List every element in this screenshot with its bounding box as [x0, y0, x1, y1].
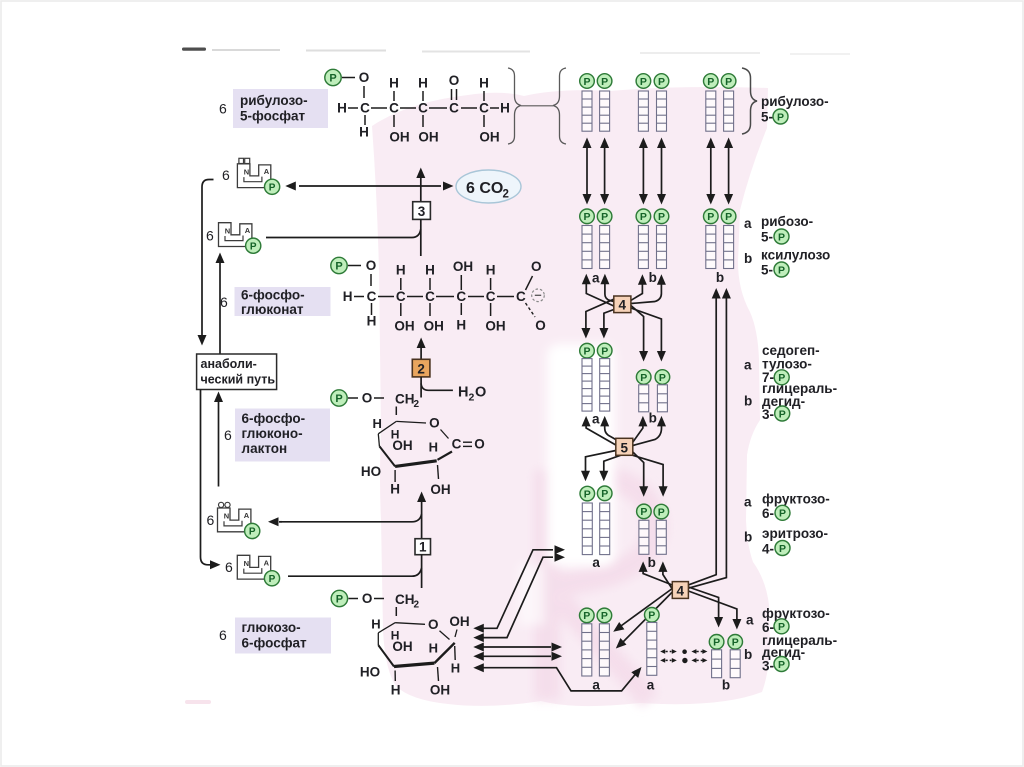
svg-text:H: H: [479, 76, 489, 91]
svg-text:b: b: [649, 411, 657, 426]
svg-text:HO: HO: [361, 464, 381, 479]
svg-text:OH: OH: [418, 130, 438, 145]
svg-text:5-фосфат: 5-фосфат: [240, 109, 306, 124]
svg-text:ческий путь: ческий путь: [201, 373, 276, 387]
svg-text:6: 6: [219, 627, 227, 643]
svg-text:b: b: [744, 530, 752, 545]
left vertical 1 lower (to NADP icon 4): [201, 390, 221, 570]
svg-text:a: a: [592, 678, 600, 693]
svg-text:CH: CH: [395, 392, 415, 407]
svg-text:эритрозо-: эритрозо-: [762, 526, 828, 541]
svg-text:P: P: [725, 211, 732, 223]
svg-text:глюкозо-: глюкозо-: [242, 620, 301, 635]
label glyceraldehyde-3-P (row5): [762, 645, 805, 674]
svg-text:рибулозо-: рибулозо-: [240, 93, 308, 108]
arrow to NADPH 1 and to CO2 (horizontal through junction): [285, 182, 453, 191]
NADP line to enzyme 3: [266, 229, 421, 238]
wire fructose-a to glucose (line 2): [473, 553, 565, 642]
svg-text:фруктозо-: фруктозо-: [762, 492, 830, 507]
svg-text:N: N: [224, 512, 229, 521]
svg-text:a: a: [746, 613, 754, 628]
svg-text:P: P: [329, 73, 336, 85]
svg-text:4-: 4-: [762, 542, 774, 557]
svg-text:O: O: [449, 73, 460, 88]
svg-text:OH: OH: [430, 683, 450, 698]
svg-text:N: N: [225, 226, 230, 235]
glyceraldehyde-3-P columns row 3b: [636, 370, 669, 412]
svg-text:H: H: [391, 683, 401, 698]
svg-text:P: P: [269, 574, 276, 585]
svg-text:P: P: [335, 261, 342, 273]
CO2 ellipse: [456, 170, 521, 203]
svg-text:5-: 5-: [761, 230, 773, 245]
ribulose-5-P columns row 1: [580, 74, 736, 132]
svg-text:2: 2: [414, 399, 420, 410]
faint pink dash bottom-left: [185, 700, 211, 704]
glucose-6-phosphate structure: [331, 590, 469, 697]
label glyceraldehyde-3-P (row3): [762, 381, 837, 422]
svg-text:ксилулозо: ксилулозо: [761, 248, 830, 263]
svg-text:P: P: [778, 264, 785, 276]
svg-text:P: P: [640, 211, 647, 223]
wire fructose-a to glucose (line 1): [473, 545, 565, 633]
label 6-phosphogluconate: [235, 287, 331, 317]
svg-text:6: 6: [225, 559, 233, 575]
arrows row3 up from box 5: [582, 416, 666, 446]
svg-text:P: P: [732, 637, 739, 649]
svg-text:P: P: [583, 76, 590, 88]
label b erythrose: [744, 530, 752, 545]
svg-text:N: N: [244, 559, 249, 568]
svg-text:C: C: [456, 289, 466, 304]
label erythrose-4-P: [762, 526, 828, 557]
label b glyceraldehyde (row5): [744, 647, 752, 662]
svg-text:5-: 5-: [761, 110, 773, 125]
svg-text:рибозо-: рибозо-: [761, 214, 813, 229]
equilibrium dashed arrows with dots: [660, 649, 707, 663]
enzyme arrow up to phosphogluconate: [417, 338, 426, 360]
svg-text:P: P: [640, 372, 647, 384]
count 6 (ribulose): [219, 101, 227, 117]
svg-text:a: a: [592, 412, 600, 427]
svg-text:H: H: [337, 101, 347, 116]
NADPH icon 1: [237, 158, 279, 194]
label b (row2): [649, 270, 657, 285]
line below box 2: [420, 377, 422, 398]
svg-text:анаболи-: анаболи-: [201, 357, 257, 371]
single a column row 5: [645, 608, 660, 676]
label a (row5 single): [647, 678, 655, 693]
svg-text:P: P: [336, 594, 343, 606]
NADPH icon 3: [218, 502, 260, 538]
svg-text:A: A: [264, 559, 270, 568]
svg-text:2: 2: [469, 392, 475, 404]
count 6 (NADP icon 4): [225, 559, 233, 575]
label b (row3): [649, 411, 657, 426]
svg-text:O: O: [474, 437, 485, 452]
svg-text:C: C: [367, 289, 377, 304]
svg-text:6-фосфо-: 6-фосфо-: [242, 411, 306, 426]
svg-text:2: 2: [414, 600, 420, 611]
svg-text:1: 1: [419, 540, 427, 555]
svg-text:P: P: [707, 76, 714, 88]
fructose-6-P columns row 5: [580, 608, 612, 676]
svg-text:OH: OH: [479, 130, 499, 145]
svg-text:P: P: [658, 76, 665, 88]
svg-text:OH: OH: [449, 614, 469, 629]
svg-text:a: a: [744, 495, 752, 510]
label a fructose (row4): [744, 495, 752, 510]
svg-text:глюконат: глюконат: [241, 302, 304, 317]
count 6 (glucose): [219, 627, 227, 643]
svg-text:A: A: [264, 167, 270, 176]
label b (row2 pair3): [716, 270, 724, 285]
count 6 (NADPH top): [222, 167, 230, 183]
label ribose-5-P: [761, 214, 813, 245]
svg-text:6: 6: [207, 512, 215, 528]
label fructose-6-P (row5): [762, 606, 830, 635]
count 6 (phosphogluconate): [220, 294, 228, 310]
svg-text:P: P: [779, 508, 786, 520]
svg-text:H: H: [367, 314, 377, 329]
ribulose-5-phosphate structure: [325, 69, 510, 144]
svg-text:N: N: [244, 167, 249, 176]
svg-text:C: C: [516, 289, 526, 304]
svg-text:C: C: [418, 101, 428, 116]
svg-text:6: 6: [206, 227, 214, 243]
svg-text:OH: OH: [430, 482, 450, 497]
arrows box 4a down to row3: [581, 299, 666, 361]
label ribulose-5-phosphate: [233, 89, 328, 128]
svg-text:лактон: лактон: [242, 441, 288, 456]
svg-text:P: P: [640, 506, 647, 518]
H2O branch: [421, 384, 453, 391]
svg-text:6 CO: 6 CO: [466, 180, 503, 197]
svg-text:O: O: [366, 258, 377, 273]
label b (row5): [722, 678, 730, 693]
svg-text:a: a: [744, 216, 752, 231]
enzyme box 5: [616, 438, 633, 455]
enzyme box 3: [413, 202, 431, 220]
svg-text:O: O: [531, 259, 542, 274]
svg-text:4: 4: [677, 583, 685, 598]
svg-text:C: C: [389, 101, 399, 116]
brace right of ribulose structure: [508, 68, 566, 144]
H2O text: [458, 385, 486, 404]
svg-text:O: O: [428, 617, 439, 632]
arrows box 4b down-right to glyceraldehyde: [688, 587, 741, 630]
svg-text:OH: OH: [424, 319, 444, 334]
label sedoheptulose-7-P: [762, 343, 820, 385]
NADP icon 4: [237, 555, 279, 586]
line below box 3: [420, 219, 422, 256]
svg-text:H: H: [373, 416, 382, 431]
svg-text:P: P: [601, 345, 608, 357]
arrows box 5 down to row4: [581, 451, 668, 497]
svg-text:O: O: [535, 318, 546, 333]
svg-text:H: H: [451, 661, 460, 676]
left vertical 1 upper (down arrow to anabolic box): [198, 180, 214, 346]
svg-text:O: O: [429, 416, 440, 431]
label xylulose-5-P: [761, 248, 830, 278]
svg-text:OH: OH: [392, 639, 412, 654]
svg-text:H: H: [456, 318, 466, 333]
svg-text:P: P: [601, 211, 608, 223]
svg-text:H: H: [458, 385, 468, 401]
svg-text:P: P: [779, 408, 786, 420]
svg-text:P: P: [725, 76, 732, 88]
svg-text:5: 5: [621, 440, 629, 455]
left vertical 2 lower (up arrow to anabolic box): [214, 392, 223, 487]
svg-text:6-фосфат: 6-фосфат: [242, 636, 308, 651]
svg-text:H: H: [359, 125, 369, 140]
svg-text:P: P: [583, 211, 590, 223]
svg-text:рибулозо-: рибулозо-: [761, 94, 829, 109]
label a fructose (row5): [746, 613, 754, 628]
svg-text:P: P: [658, 506, 665, 518]
svg-text:HO: HO: [360, 665, 380, 680]
label fructose-6-P (row4): [762, 492, 830, 522]
svg-text:H: H: [389, 76, 399, 91]
svg-text:P: P: [601, 76, 608, 88]
glyceraldehyde-3-P columns row 5: [709, 635, 742, 678]
svg-text:b: b: [744, 251, 752, 266]
svg-text:6: 6: [220, 294, 228, 310]
svg-text:P: P: [707, 211, 714, 223]
svg-text:P: P: [335, 393, 342, 405]
svg-text:P: P: [601, 488, 608, 500]
svg-text:H: H: [486, 263, 496, 278]
svg-text:6: 6: [219, 101, 227, 117]
svg-text:C: C: [452, 437, 462, 452]
count 6 (NADPH icon 3): [207, 512, 215, 528]
svg-text:C: C: [486, 289, 496, 304]
svg-text:a: a: [744, 358, 752, 373]
svg-text:P: P: [583, 346, 590, 358]
svg-text:4: 4: [619, 298, 627, 313]
svg-text:3-: 3-: [762, 659, 774, 674]
NADP line from icon 4 to enzyme 1: [288, 568, 422, 576]
svg-text:H: H: [371, 617, 380, 632]
label glyceraldehyde (row5) line1: [762, 633, 837, 648]
label b (row4): [648, 555, 656, 570]
svg-text:O: O: [362, 391, 373, 406]
svg-text:O: O: [362, 591, 373, 606]
svg-text:C: C: [396, 289, 406, 304]
svg-text:OH: OH: [389, 130, 409, 145]
label a sedoheptulose: [744, 358, 752, 373]
svg-text:H: H: [425, 263, 435, 278]
label a (row2): [592, 271, 600, 286]
svg-text:C: C: [479, 101, 489, 116]
pink panel background: [372, 87, 770, 706]
svg-text:A: A: [244, 511, 250, 520]
svg-text:OH: OH: [485, 319, 505, 334]
svg-text:b: b: [722, 678, 730, 693]
enzyme box 2: [412, 359, 430, 377]
svg-text:b: b: [649, 270, 657, 285]
enzyme box 4b: [672, 582, 688, 599]
svg-text:b: b: [744, 647, 752, 662]
count 6 (lactone): [224, 427, 232, 443]
enzyme box 1: [415, 539, 431, 555]
svg-text:a: a: [647, 678, 655, 693]
label a ribose: [744, 216, 752, 231]
6-phosphogluconate structure: [331, 257, 546, 333]
label a (row3): [592, 412, 600, 427]
wire bottom V path to single a-column: [473, 663, 641, 691]
left vertical 2 upper (up arrow to NADP icon 2): [216, 253, 225, 355]
white notch over pink (left of fructose columns): [519, 344, 615, 625]
ribose/xylulose columns row 2: [580, 209, 736, 269]
svg-text:6-фосфо-: 6-фосфо-: [241, 288, 305, 303]
svg-text:A: A: [245, 226, 251, 235]
label b glyceraldehyde (row3): [744, 394, 752, 409]
svg-text:P: P: [250, 241, 257, 252]
NADPH line from enzyme 1: [279, 514, 422, 522]
svg-text:b: b: [744, 394, 752, 409]
svg-text:P: P: [249, 527, 256, 538]
svg-text:OH: OH: [394, 319, 414, 334]
label a (row5 pair): [592, 678, 600, 693]
svg-text:a: a: [592, 271, 600, 286]
svg-text:CH: CH: [395, 592, 415, 607]
svg-text:P: P: [583, 610, 590, 622]
svg-text:2: 2: [417, 361, 425, 376]
enzyme arrow up to ribulose: [416, 168, 425, 202]
svg-text:P: P: [601, 610, 608, 622]
enzyme box 4a: [614, 296, 631, 313]
svg-text:OH: OH: [453, 259, 473, 274]
label glucose-6-phosphate: [235, 618, 331, 654]
arrows row4b up from box 4b: [639, 561, 673, 589]
enzyme arrow up to lactone: [417, 492, 426, 539]
line below box 1: [421, 555, 423, 588]
svg-text:P: P: [778, 621, 785, 633]
anabolic pathway box: [197, 354, 277, 390]
wire fructose to glucose (line 4): [473, 652, 562, 661]
svg-text:5-: 5-: [761, 263, 773, 278]
sedoheptulose-7-P columns row 3a: [580, 343, 612, 411]
svg-text:2: 2: [503, 189, 509, 201]
arrowhead to NADPH 3: [268, 517, 282, 526]
svg-text:OH: OH: [392, 438, 412, 453]
svg-text:глюконо-: глюконо-: [242, 426, 303, 441]
top edge dashes: [182, 48, 850, 56]
svg-text:O: O: [475, 385, 486, 401]
svg-text:H: H: [396, 263, 406, 278]
svg-text:C: C: [360, 101, 370, 116]
svg-text:P: P: [658, 211, 665, 223]
NADP icon 2: [219, 223, 261, 254]
svg-text:C: C: [449, 101, 459, 116]
svg-text:a: a: [592, 555, 600, 570]
long verticals from box 4b up to pair3: [688, 288, 731, 588]
count 6 (NADP icon 2): [206, 227, 214, 243]
wire fructose to glucose (line 3): [473, 643, 562, 652]
fructose-6-P columns row 4a: [580, 486, 612, 555]
svg-text:6-: 6-: [762, 506, 774, 521]
svg-text:P: P: [777, 111, 784, 123]
label 6-phosphoglucono-lactone: [235, 409, 330, 462]
svg-text:P: P: [648, 610, 655, 622]
svg-text:P: P: [778, 659, 785, 671]
svg-text:H: H: [390, 482, 400, 497]
label b xylulose: [744, 251, 752, 266]
svg-text:C: C: [425, 289, 435, 304]
svg-text:H: H: [343, 289, 353, 304]
svg-text:H: H: [429, 440, 438, 455]
svg-text:P: P: [584, 488, 591, 500]
svg-text:O: O: [359, 70, 370, 85]
6-phosphoglucono-lactone structure: [331, 390, 485, 497]
svg-text:3-: 3-: [762, 407, 774, 422]
svg-text:P: P: [659, 372, 666, 384]
svg-text:P: P: [778, 231, 785, 243]
svg-text:H: H: [418, 76, 428, 91]
label a (row4): [592, 555, 600, 570]
arrows row2 up from box 4a: [582, 274, 666, 306]
erythrose-4-P columns row 4b: [637, 504, 669, 554]
svg-text:P: P: [640, 76, 647, 88]
svg-text:фруктозо-: фруктозо-: [762, 606, 830, 621]
svg-text:3: 3: [418, 204, 426, 219]
brace ribulose-5-P label: [742, 68, 757, 134]
svg-text:6: 6: [222, 167, 230, 183]
svg-text:b: b: [648, 555, 656, 570]
double arrows row1-row2: [583, 138, 734, 205]
svg-text:6: 6: [224, 427, 232, 443]
label ribulose-5-P: [761, 94, 829, 125]
svg-text:H: H: [429, 641, 438, 656]
svg-text:P: P: [713, 637, 720, 649]
arrows box 4b down-left to row5: [613, 589, 672, 649]
svg-text:P: P: [269, 182, 276, 193]
svg-text:b: b: [716, 270, 724, 285]
pink watermark letter: [547, 470, 655, 700]
svg-text:P: P: [779, 543, 786, 555]
svg-text:H: H: [500, 101, 510, 116]
